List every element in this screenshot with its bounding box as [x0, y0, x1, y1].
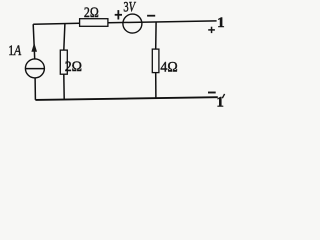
- svg-text:2Ω: 2Ω: [65, 59, 82, 76]
- svg-text:1: 1: [216, 94, 224, 110]
- svg-text:1: 1: [217, 15, 225, 31]
- svg-text:2Ω: 2Ω: [84, 4, 99, 21]
- svg-text:1A: 1A: [8, 41, 22, 58]
- svg-text:4Ω: 4Ω: [160, 59, 177, 76]
- svg-text:3V: 3V: [123, 0, 136, 15]
